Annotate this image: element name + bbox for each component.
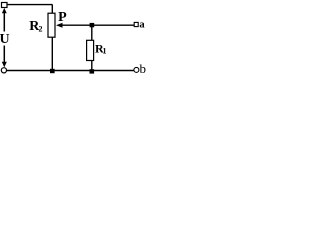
junction node at R1 top [90, 23, 95, 27]
wiper arrow P (points left into R2) [56, 23, 63, 28]
svg-text:2: 2 [39, 25, 43, 34]
terminal top-left (square) [2, 3, 8, 8]
wire bottom rail [7, 70, 134, 72]
resistor R1 body [87, 40, 94, 60]
svg-text:U: U [0, 32, 10, 47]
terminal a (square) [134, 22, 138, 26]
svg-text:a: a [139, 20, 145, 31]
wire junction down to R1 [91, 25, 93, 40]
wire top rail [7, 4, 53, 6]
potentiometer R2 body [48, 13, 55, 37]
wire R1 bottom to bottom rail [91, 61, 93, 71]
junction node at R2 bottom [50, 69, 55, 73]
junction node at R1 bottom [90, 69, 95, 73]
voltage arrow U (double-headed, between left terminals) [2, 8, 7, 68]
svg-text:P: P [58, 10, 67, 25]
wire R2 bottom to bottom rail [51, 37, 53, 70]
svg-text:b: b [140, 61, 147, 76]
wire wiper to terminal a [62, 24, 135, 26]
terminal b (circle) [134, 67, 139, 72]
terminal bottom-left (circle) [1, 68, 6, 73]
svg-text:1: 1 [103, 47, 107, 56]
wire down into R2 top [51, 5, 53, 14]
